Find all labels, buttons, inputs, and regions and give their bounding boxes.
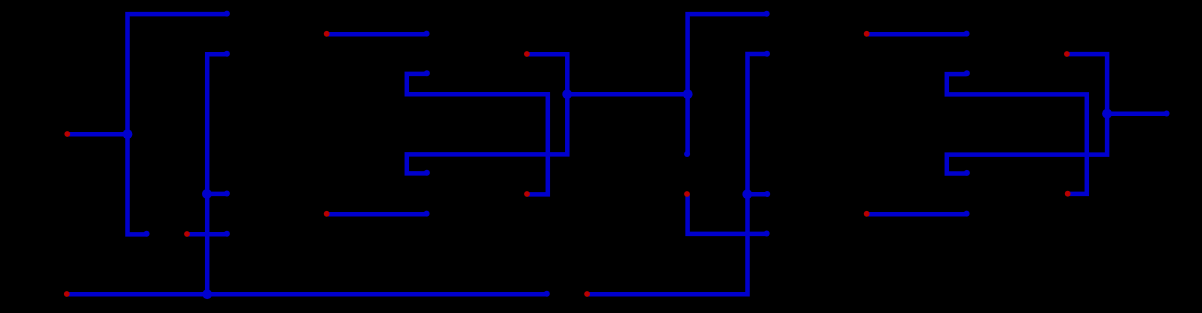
junction node center vertical stub row	[742, 189, 752, 199]
wire input A to left vertical	[67, 132, 127, 137]
junction node left vertical / input A	[123, 129, 133, 139]
pin J	[864, 31, 870, 37]
wire end cap pin H horizontal	[764, 231, 770, 237]
junction node net4 branch	[562, 89, 572, 99]
pin K	[864, 211, 870, 217]
pin F	[524, 191, 530, 197]
pin G	[524, 51, 530, 57]
wire net5 center: top stub, long vertical, bottom rail to pin I	[587, 54, 767, 294]
wire end cap top-left rail	[224, 11, 230, 17]
wire net3 middle: stub, down, right, down to pin F	[407, 74, 548, 194]
pin L	[1065, 191, 1071, 197]
wire end cap input E	[424, 211, 430, 217]
wire input E	[327, 212, 427, 217]
wire end cap bottom rail left	[544, 291, 550, 297]
wire end cap net5 top stub	[764, 51, 770, 57]
pin D	[324, 31, 330, 37]
wire end cap net3 top stub	[424, 70, 430, 76]
wire end cap left bottom stub	[144, 231, 150, 237]
wire output from right junction	[1107, 112, 1166, 117]
wire branch from middle junction to center vertical	[567, 92, 687, 97]
pin B	[184, 231, 190, 237]
pin I	[584, 291, 590, 297]
wire end cap input B	[224, 231, 230, 237]
junction node bottom rail / second vertical	[202, 289, 212, 299]
wire input D	[327, 32, 427, 37]
pin M	[1064, 51, 1070, 57]
wire end cap center vertical bottom	[684, 151, 690, 157]
wire center vertical with top rail	[688, 14, 767, 154]
wire stub at left junction row	[207, 192, 227, 197]
wire pin H down then right crossing V4	[688, 194, 767, 234]
pin A	[64, 131, 70, 137]
wire net6 right: stub, down, right, down to pin L	[947, 74, 1087, 194]
junction node second vertical stub row	[202, 189, 212, 199]
wire end cap left junction stub	[224, 191, 230, 197]
wire stub at center junction row	[748, 192, 767, 197]
wire end cap net4 bottom stub	[424, 170, 430, 176]
wire end cap input K	[964, 211, 970, 217]
junction node output branch	[1102, 109, 1112, 119]
wire end cap input J	[964, 31, 970, 37]
pin E	[324, 211, 330, 217]
wire bottom rail left	[67, 292, 547, 297]
wire end cap second vertical top stub	[224, 51, 230, 57]
wire end cap net6 top stub	[964, 70, 970, 76]
wire end cap center junction stub	[764, 191, 770, 197]
pin H	[684, 191, 690, 197]
wire input J	[867, 32, 967, 37]
wire net7 right: pin M right, down, left, down, stub	[947, 54, 1107, 173]
wire end cap net7 bottom stub	[964, 170, 970, 176]
junction node center vertical branch	[683, 89, 693, 99]
wire end cap center top rail	[764, 11, 770, 17]
wire input K	[867, 212, 967, 217]
wire net1 left: top rail, left vertical, bottom stub	[128, 14, 228, 234]
wire end cap output	[1164, 111, 1170, 117]
wire end cap input D	[424, 31, 430, 37]
wire net4 middle: pin G right, down, left, down, stub	[407, 54, 568, 173]
pin C	[64, 291, 70, 297]
wire input B crossing second vertical	[187, 232, 227, 237]
wire net2 left: second vertical with top stub	[207, 54, 227, 294]
